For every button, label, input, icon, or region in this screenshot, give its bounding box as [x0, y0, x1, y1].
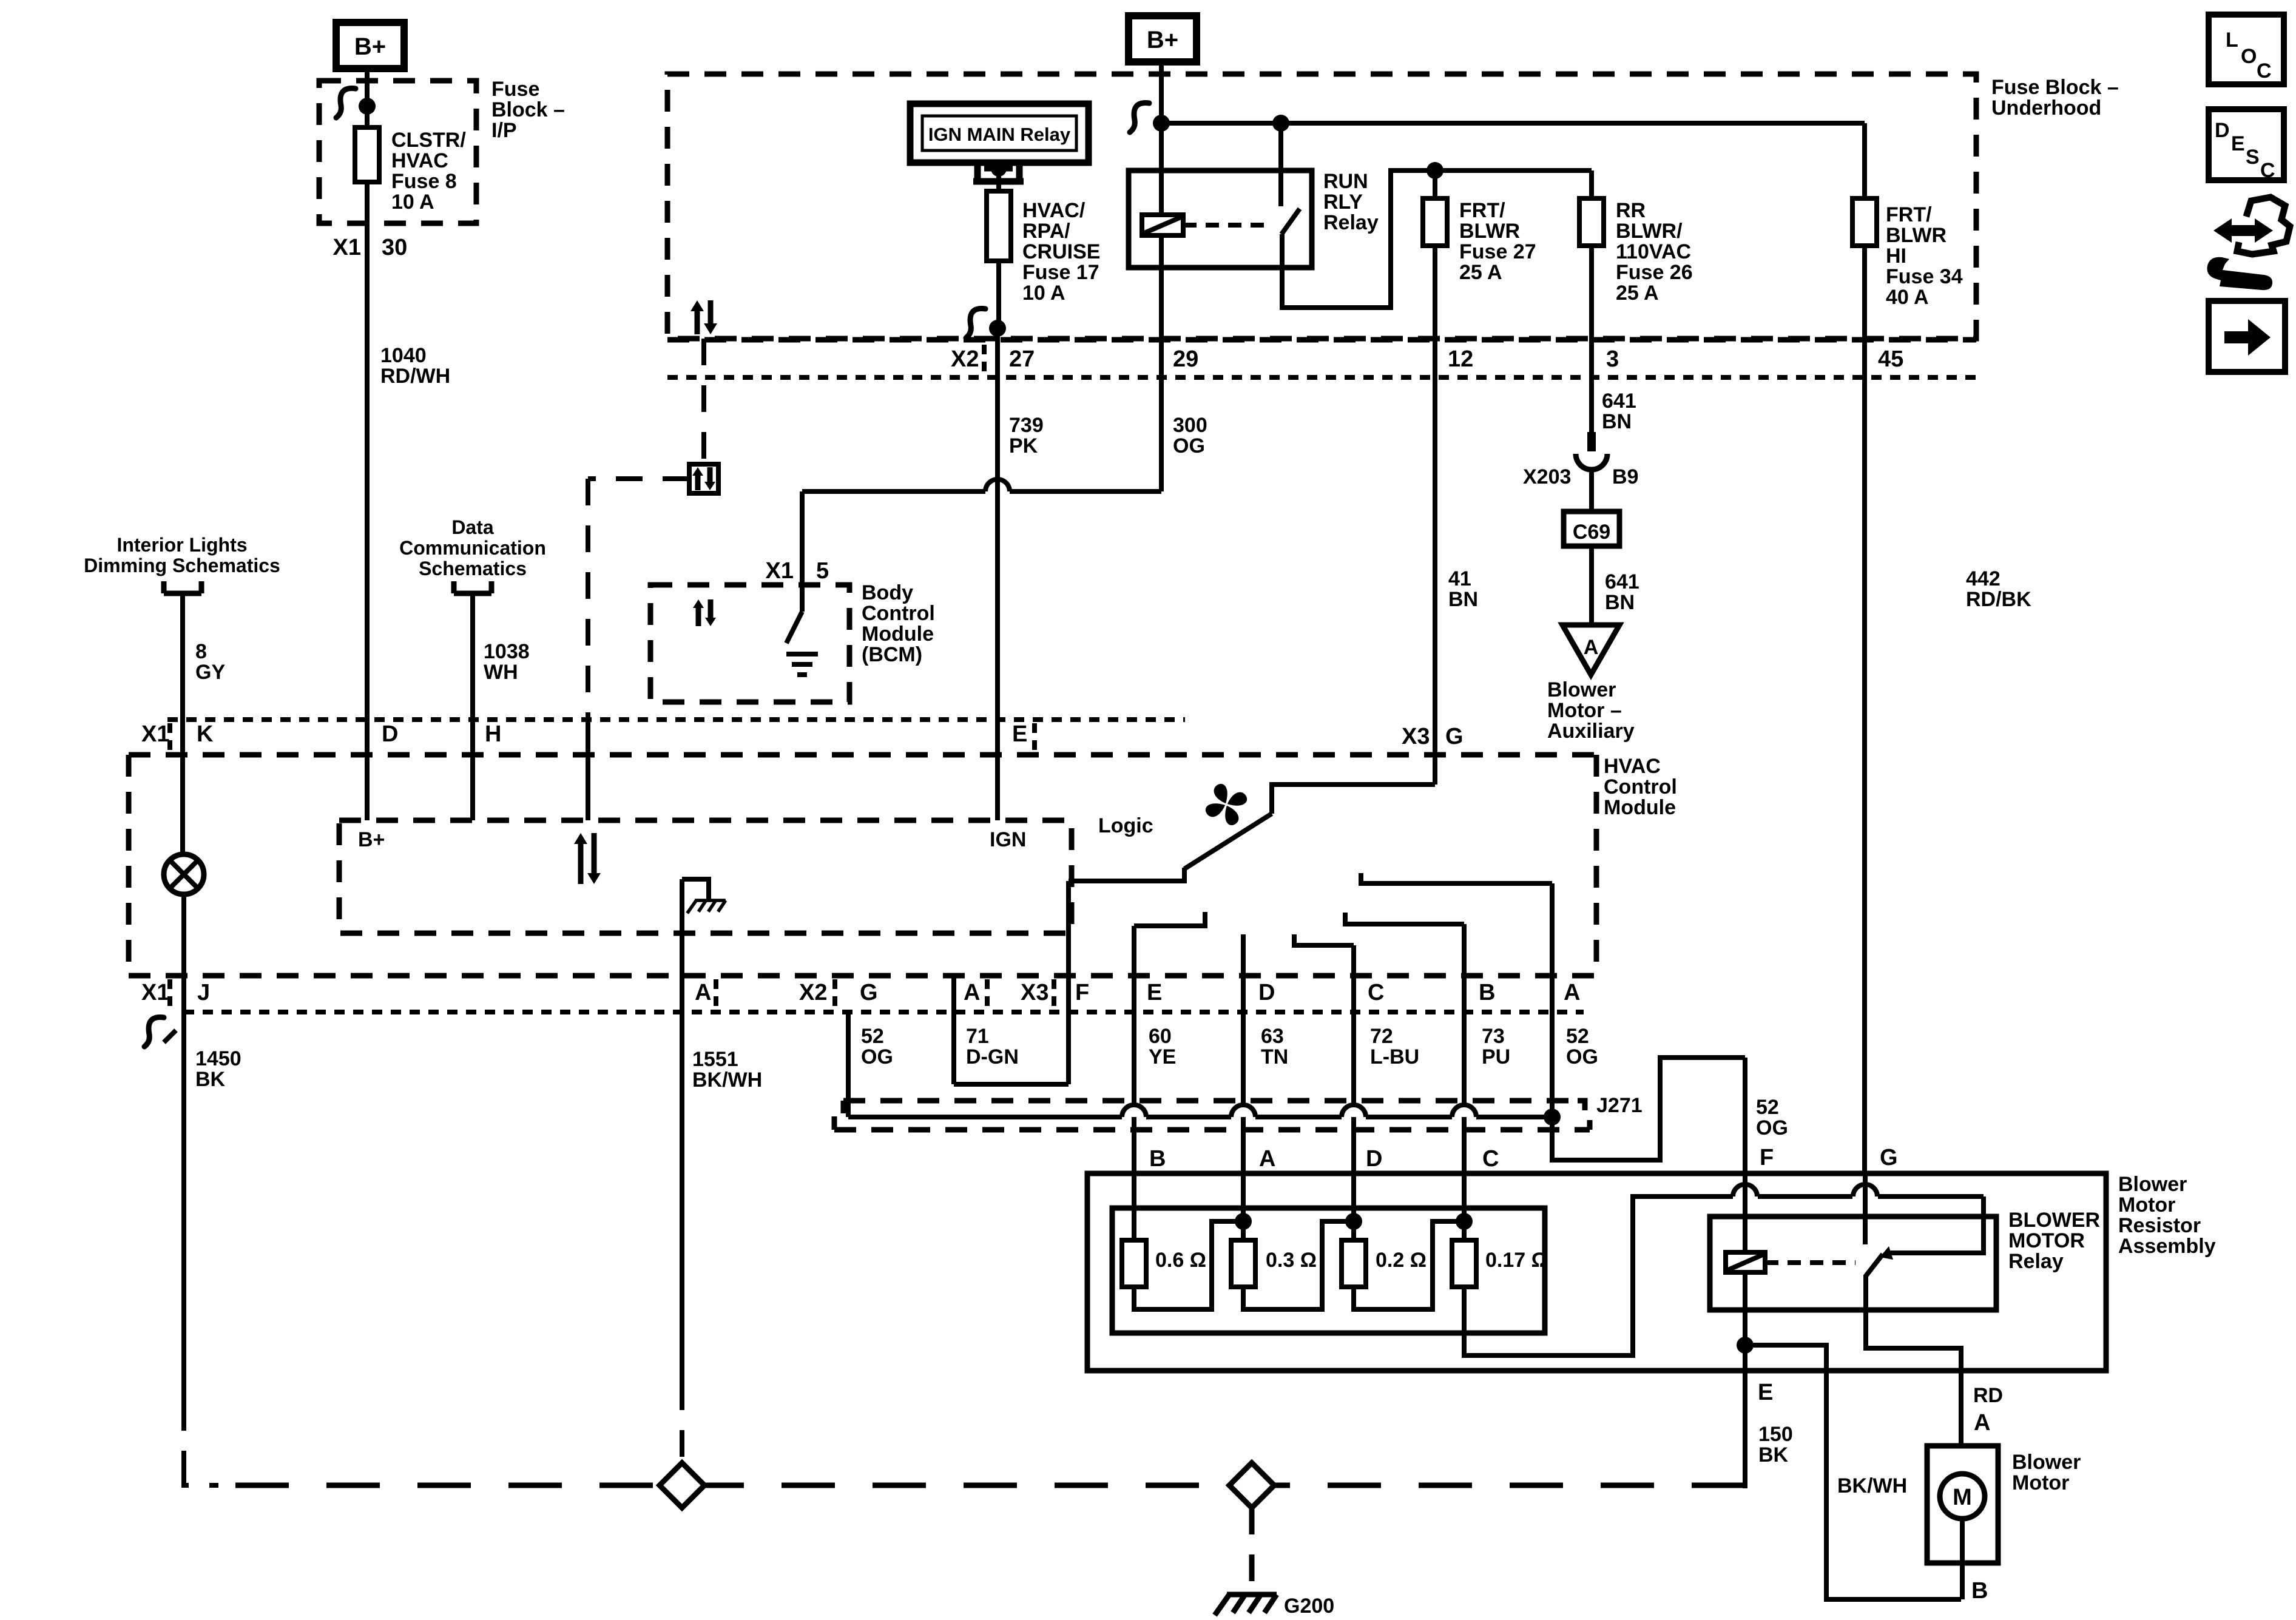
svg-text:Blower: Blower [2118, 1173, 2187, 1196]
svg-text:CLSTR/: CLSTR/ [391, 129, 466, 152]
svg-text:25 A: 25 A [1459, 261, 1502, 284]
svg-text:Fuse 34: Fuse 34 [1886, 265, 1963, 288]
svg-text:1450: 1450 [195, 1047, 241, 1070]
svg-text:B: B [1479, 980, 1495, 1005]
svg-text:BK/WH: BK/WH [692, 1068, 762, 1092]
svg-text:150: 150 [1758, 1423, 1793, 1446]
svg-text:K: K [197, 721, 214, 747]
svg-text:Underhood: Underhood [1991, 96, 2101, 120]
svg-text:5: 5 [816, 558, 829, 584]
svg-text:Fuse 26: Fuse 26 [1616, 261, 1693, 284]
svg-text:RPA/: RPA/ [1022, 220, 1070, 243]
svg-text:E: E [1758, 1380, 1773, 1405]
svg-text:E: E [2231, 132, 2245, 155]
svg-text:WH: WH [484, 661, 518, 684]
svg-text:71: 71 [966, 1025, 989, 1048]
svg-text:52: 52 [1566, 1025, 1589, 1048]
svg-text:0.2 Ω: 0.2 Ω [1376, 1249, 1427, 1272]
svg-text:300: 300 [1173, 414, 1207, 437]
svg-text:739: 739 [1009, 414, 1044, 437]
svg-text:BK: BK [1758, 1443, 1789, 1466]
svg-text:F: F [1760, 1145, 1774, 1170]
svg-text:Fuse 8: Fuse 8 [391, 170, 457, 193]
svg-text:PK: PK [1009, 434, 1038, 457]
svg-text:Fuse Block –: Fuse Block – [1991, 76, 2119, 99]
svg-text:C: C [1482, 1146, 1499, 1172]
svg-text:OG: OG [1173, 434, 1205, 457]
svg-text:B: B [1149, 1146, 1166, 1172]
svg-text:RD: RD [1973, 1384, 2003, 1407]
svg-text:30: 30 [382, 235, 407, 260]
svg-text:Module: Module [1604, 796, 1676, 819]
svg-text:X203: X203 [1523, 465, 1571, 488]
svg-text:A: A [1564, 980, 1580, 1005]
svg-text:BLWR: BLWR [1459, 220, 1520, 243]
svg-text:HVAC: HVAC [1604, 755, 1661, 778]
svg-text:X1: X1 [141, 980, 169, 1005]
svg-text:73: 73 [1482, 1025, 1505, 1048]
svg-text:C: C [1368, 980, 1384, 1005]
svg-text:BN: BN [1605, 591, 1635, 614]
svg-text:442: 442 [1966, 567, 2001, 590]
svg-text:TN: TN [1261, 1045, 1288, 1068]
svg-text:Block –: Block – [491, 98, 565, 121]
svg-text:RD/WH: RD/WH [380, 365, 450, 388]
svg-text:0.3 Ω: 0.3 Ω [1266, 1249, 1317, 1272]
svg-text:L: L [2226, 29, 2238, 52]
svg-text:12: 12 [1448, 346, 1473, 372]
svg-text:RUN: RUN [1323, 170, 1368, 193]
svg-text:41: 41 [1448, 567, 1471, 590]
svg-text:8: 8 [195, 640, 207, 663]
svg-text:1038: 1038 [484, 640, 530, 663]
svg-text:X3: X3 [1402, 724, 1430, 749]
svg-text:X2: X2 [799, 980, 827, 1005]
svg-text:F: F [1075, 980, 1089, 1005]
svg-text:(BCM): (BCM) [862, 643, 922, 666]
svg-text:Assembly: Assembly [2118, 1235, 2216, 1258]
svg-text:A: A [1974, 1410, 1990, 1436]
svg-text:RD/BK: RD/BK [1966, 588, 2031, 611]
svg-text:RR: RR [1616, 199, 1646, 222]
svg-text:FRT/: FRT/ [1886, 203, 1932, 226]
svg-text:Schematics: Schematics [419, 558, 527, 579]
svg-text:Communication: Communication [399, 537, 546, 559]
svg-text:HVAC/: HVAC/ [1022, 199, 1086, 222]
svg-text:D: D [1366, 1146, 1382, 1172]
svg-text:A: A [695, 980, 711, 1005]
svg-text:A: A [964, 980, 980, 1005]
svg-text:Motor: Motor [2012, 1471, 2069, 1494]
svg-text:D: D [1258, 980, 1275, 1005]
svg-text:D: D [2215, 119, 2230, 142]
svg-text:D: D [382, 721, 398, 747]
svg-text:IGN: IGN [990, 828, 1026, 851]
svg-text:Relay: Relay [2008, 1250, 2064, 1273]
svg-text:B+: B+ [1147, 27, 1178, 53]
svg-text:Data: Data [451, 516, 494, 538]
svg-text:Motor –: Motor – [1547, 699, 1622, 722]
svg-text:Auxiliary: Auxiliary [1547, 720, 1635, 743]
svg-text:J: J [197, 980, 210, 1005]
svg-text:PU: PU [1482, 1045, 1510, 1068]
svg-text:10 A: 10 A [391, 191, 434, 214]
svg-text:0.6 Ω: 0.6 Ω [1155, 1249, 1206, 1272]
svg-text:X1: X1 [333, 235, 361, 260]
svg-text:B: B [1971, 1578, 1988, 1604]
svg-text:BK: BK [195, 1068, 226, 1091]
svg-text:E: E [1147, 980, 1162, 1005]
svg-text:27: 27 [1009, 346, 1035, 372]
svg-text:MOTOR: MOTOR [2008, 1229, 2085, 1252]
svg-text:29: 29 [1173, 346, 1198, 372]
svg-text:10 A: 10 A [1022, 282, 1065, 305]
svg-text:60: 60 [1149, 1025, 1172, 1048]
svg-text:Fuse 27: Fuse 27 [1459, 240, 1536, 263]
svg-text:1040: 1040 [380, 344, 427, 367]
svg-text:GY: GY [195, 661, 225, 684]
svg-text:IGN MAIN Relay: IGN MAIN Relay [928, 124, 1071, 145]
svg-text:L-BU: L-BU [1370, 1045, 1419, 1068]
svg-text:641: 641 [1605, 570, 1639, 593]
svg-text:CRUISE: CRUISE [1022, 240, 1100, 263]
svg-text:D-GN: D-GN [966, 1045, 1019, 1068]
svg-text:Relay: Relay [1323, 211, 1379, 234]
svg-text:S: S [2246, 146, 2260, 169]
svg-text:C69: C69 [1573, 521, 1610, 544]
svg-text:40 A: 40 A [1886, 286, 1929, 309]
svg-text:BLOWER: BLOWER [2008, 1209, 2100, 1232]
svg-text:1551: 1551 [692, 1048, 738, 1071]
svg-text:X2: X2 [951, 346, 979, 372]
svg-text:G200: G200 [1284, 1595, 1334, 1617]
svg-text:641: 641 [1602, 390, 1636, 413]
svg-text:Module: Module [862, 623, 934, 646]
svg-text:E: E [1012, 721, 1027, 747]
svg-text:Resistor: Resistor [2118, 1214, 2201, 1237]
svg-text:X3: X3 [1021, 980, 1048, 1005]
svg-text:Fuse 17: Fuse 17 [1022, 261, 1099, 284]
svg-text:G: G [1445, 724, 1464, 749]
svg-text:OG: OG [1756, 1116, 1788, 1139]
svg-text:M: M [1953, 1485, 1972, 1510]
svg-text:Control: Control [1604, 775, 1677, 798]
svg-text:X1: X1 [141, 721, 169, 747]
svg-text:3: 3 [1606, 346, 1619, 372]
svg-text:Fuse: Fuse [491, 78, 539, 101]
svg-text:BN: BN [1602, 410, 1632, 433]
svg-text:B+: B+ [358, 828, 385, 851]
svg-text:H: H [485, 721, 501, 747]
svg-text:BLWR: BLWR [1886, 224, 1947, 247]
svg-text:G: G [860, 980, 878, 1005]
svg-text:110VAC: 110VAC [1616, 240, 1691, 263]
svg-text:I/P: I/P [491, 119, 517, 142]
svg-text:O: O [2241, 45, 2257, 68]
svg-text:BN: BN [1448, 588, 1478, 611]
svg-text:X1: X1 [766, 558, 794, 584]
svg-text:45: 45 [1878, 346, 1903, 372]
svg-text:Control: Control [862, 602, 935, 625]
svg-text:Interior Lights: Interior Lights [116, 534, 247, 556]
svg-text:52: 52 [1756, 1096, 1779, 1119]
svg-text:C: C [2257, 59, 2272, 83]
svg-text:25 A: 25 A [1616, 282, 1659, 305]
svg-text:0.17 Ω: 0.17 Ω [1485, 1249, 1548, 1272]
svg-text:52: 52 [861, 1025, 884, 1048]
svg-text:A: A [1259, 1146, 1275, 1172]
svg-text:Dimming Schematics: Dimming Schematics [84, 555, 280, 576]
svg-text:FRT/: FRT/ [1459, 199, 1505, 222]
svg-text:J271: J271 [1596, 1094, 1643, 1117]
svg-text:RLY: RLY [1323, 191, 1363, 214]
svg-text:HVAC: HVAC [391, 149, 448, 172]
svg-text:Logic: Logic [1098, 814, 1153, 837]
svg-text:C: C [2260, 159, 2275, 182]
svg-text:Motor: Motor [2118, 1193, 2175, 1217]
svg-text:HI: HI [1886, 245, 1906, 268]
svg-text:BK/WH: BK/WH [1837, 1474, 1907, 1497]
svg-text:Body: Body [862, 581, 913, 604]
svg-text:B9: B9 [1612, 465, 1638, 488]
svg-text:BLWR/: BLWR/ [1616, 220, 1683, 243]
svg-text:B+: B+ [354, 33, 386, 60]
svg-text:63: 63 [1261, 1025, 1284, 1048]
svg-text:Blower: Blower [2012, 1451, 2081, 1474]
svg-text:OG: OG [861, 1045, 893, 1068]
svg-text:G: G [1880, 1145, 1898, 1170]
svg-text:YE: YE [1149, 1045, 1176, 1068]
svg-text:Blower: Blower [1547, 678, 1616, 701]
svg-text:A: A [1584, 636, 1599, 659]
svg-text:72: 72 [1370, 1025, 1393, 1048]
svg-text:OG: OG [1566, 1045, 1598, 1068]
